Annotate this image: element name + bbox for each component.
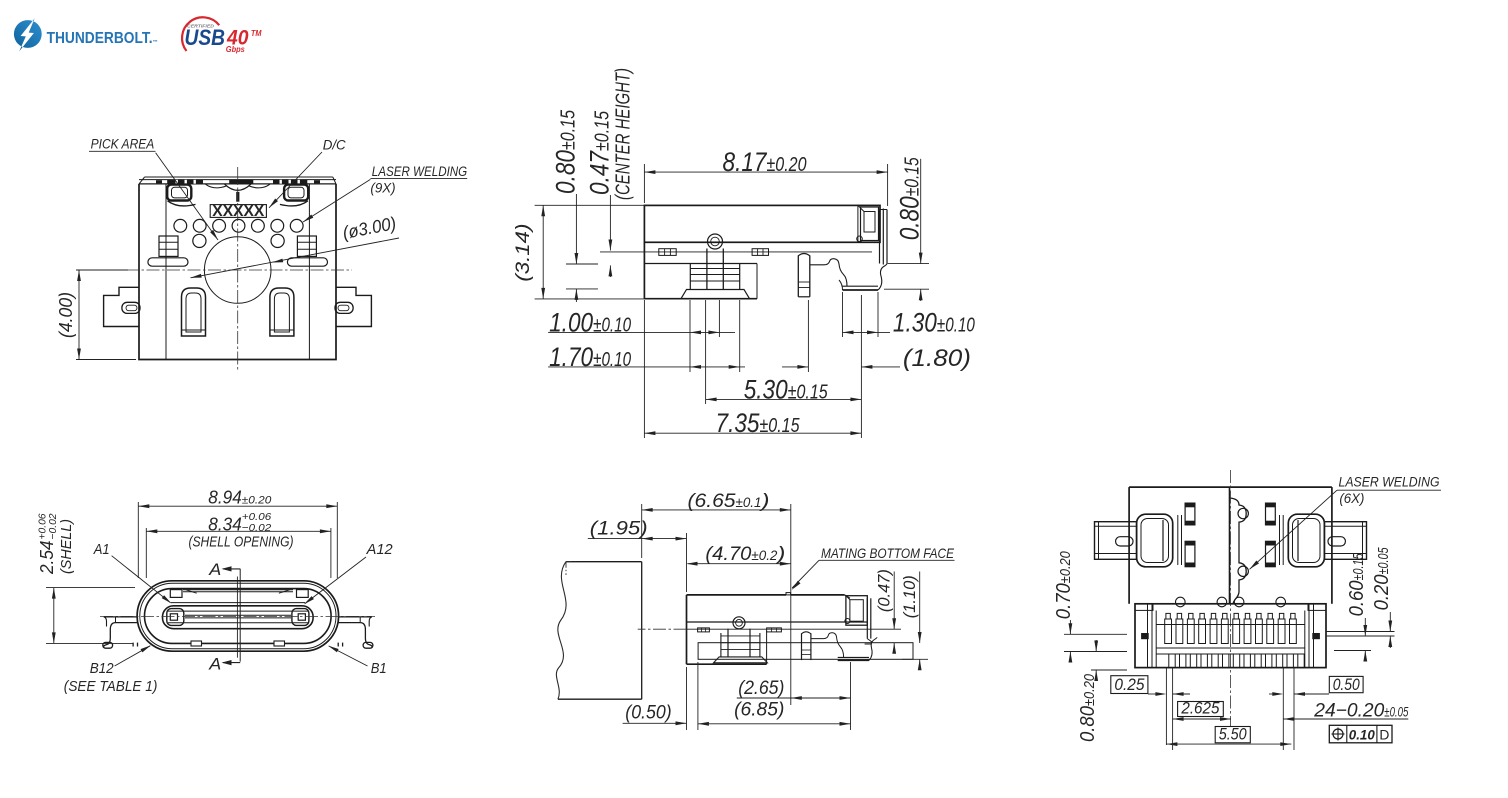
dim 5.50 boxed xyxy=(1215,727,1250,743)
tongue end caps xyxy=(167,609,184,626)
dim 0.70 xyxy=(1064,633,1127,635)
svg-text:2.625: 2.625 xyxy=(1181,699,1220,718)
top view shell body outline xyxy=(139,184,336,360)
svg-text:8.34: 8.34 xyxy=(208,513,242,534)
top view inner side lines xyxy=(165,184,167,360)
svg-text:0.20±0.05: 0.20±0.05 xyxy=(1371,547,1393,610)
svg-text:(4.00): (4.00) xyxy=(56,292,76,338)
dim (6.85) xyxy=(697,662,699,730)
top view centerlines xyxy=(237,167,239,372)
front view centerline xyxy=(100,615,375,617)
mounted center dome xyxy=(733,617,745,629)
svg-text:(1.95): (1.95) xyxy=(590,519,648,540)
front tongue xyxy=(163,606,314,629)
svg-text:0.60±0.15: 0.60±0.15 xyxy=(1346,553,1368,616)
upper pin row xyxy=(1166,613,1170,619)
top edge weld bars xyxy=(167,180,203,184)
svg-text:24−0.20±0.05: 24−0.20±0.05 xyxy=(1313,701,1408,722)
dim 1.70 xyxy=(739,300,741,372)
mounted rear bracket xyxy=(811,633,844,658)
position tolerance frame xyxy=(1329,725,1392,743)
side view rear latch block xyxy=(857,205,859,242)
dim 0.80 bottom xyxy=(1091,669,1127,671)
svg-text:LASER WELDING: LASER WELDING xyxy=(1339,475,1440,490)
dim 24-0.20 xyxy=(1283,718,1408,720)
svg-text:XXXXX: XXXXX xyxy=(212,203,265,220)
svg-text:(0.47): (0.47) xyxy=(874,569,893,612)
dim 0.50 boxed xyxy=(1329,676,1363,692)
latch hooks xyxy=(168,201,196,206)
mounted center foot xyxy=(727,629,729,657)
pcb tab right xyxy=(336,287,371,326)
laser weld circles row (9X) xyxy=(174,219,187,232)
latch right xyxy=(284,185,308,201)
wing latch left xyxy=(1137,514,1173,567)
svg-text:(6.65±0.1): (6.65±0.1) xyxy=(688,491,770,512)
svg-text:0.70±0.20: 0.70±0.20 xyxy=(1053,551,1075,620)
svg-text:(1.10): (1.10) xyxy=(900,575,919,618)
svg-text:5.50: 5.50 xyxy=(1219,725,1247,744)
dim (1.80) xyxy=(807,300,809,372)
dim 5.30 xyxy=(705,300,707,404)
svg-text:(2.65): (2.65) xyxy=(738,678,784,699)
dim (6.65) xyxy=(641,504,643,558)
svg-text:(SEE TABLE 1): (SEE TABLE 1) xyxy=(64,679,158,695)
date code box XXXXX xyxy=(210,205,266,218)
tongue contact band xyxy=(185,614,291,616)
dim (0.50) xyxy=(686,667,688,730)
svg-text:(3.14): (3.14) xyxy=(513,224,534,282)
front shell opening lines xyxy=(183,589,293,591)
lower pin row xyxy=(1169,654,1175,668)
svg-text:0.80±0.20: 0.80±0.20 xyxy=(1077,673,1099,742)
latch left xyxy=(167,185,191,201)
panel outline xyxy=(566,561,642,563)
svg-text:(0.50): (0.50) xyxy=(625,702,671,723)
dim 1.30 xyxy=(842,292,844,337)
dim 7.35 xyxy=(643,300,645,438)
panel corner marks xyxy=(566,561,578,563)
svg-text:−0.02: −0.02 xyxy=(242,522,272,534)
svg-text:(6X): (6X) xyxy=(1339,491,1364,506)
bottom view slots xyxy=(1185,503,1195,525)
svg-text:B12: B12 xyxy=(90,661,114,677)
svg-text:A1: A1 xyxy=(93,542,110,558)
retention leg right xyxy=(270,288,294,336)
center foot post xyxy=(706,249,708,290)
svg-text:A: A xyxy=(208,560,221,579)
side view main body xyxy=(644,205,880,242)
center tongue dome xyxy=(206,184,227,188)
svg-text:−0.02: −0.02 xyxy=(47,513,59,539)
svg-text:0.25: 0.25 xyxy=(1114,675,1144,694)
side view bands xyxy=(644,241,880,243)
svg-text:(1.80): (1.80) xyxy=(903,345,971,372)
svg-text:0.10: 0.10 xyxy=(1349,727,1375,742)
dim 8.94 xyxy=(137,502,139,578)
mounted front block xyxy=(846,596,867,626)
side view contact windows xyxy=(659,249,676,256)
svg-text:MATING BOTTOM FACE: MATING BOTTOM FACE xyxy=(821,545,955,561)
section line A-A xyxy=(239,569,241,662)
svg-text:PICK AREA: PICK AREA xyxy=(91,136,155,151)
rear foot bracket xyxy=(810,259,847,286)
front view outer shell xyxy=(137,581,339,651)
center contact dome xyxy=(708,234,723,249)
side pills xyxy=(148,258,188,266)
dim (4.70) xyxy=(688,563,791,565)
svg-text:THUNDERBOLT.: THUNDERBOLT. xyxy=(47,30,153,47)
dim 0.60 xyxy=(1326,631,1395,633)
svg-text:2.54: 2.54 xyxy=(36,541,57,575)
dim 0.80 left xyxy=(566,263,598,265)
dim 0.25 boxed xyxy=(1111,676,1148,694)
side view lower body xyxy=(643,242,645,298)
side detail stacks xyxy=(159,236,178,256)
svg-text:USB: USB xyxy=(185,25,226,50)
svg-text:A12: A12 xyxy=(366,542,393,558)
front bottom notches xyxy=(191,641,202,646)
dim (3.14) xyxy=(535,204,648,206)
center foot flange xyxy=(681,290,750,299)
svg-text:(6.85): (6.85) xyxy=(734,700,784,721)
svg-text:(SHELL): (SHELL) xyxy=(59,519,75,574)
dim (1.95) xyxy=(686,533,688,592)
svg-text:D/C: D/C xyxy=(323,138,346,153)
svg-text:LASER WELDING: LASER WELDING xyxy=(372,164,467,179)
pin block xyxy=(1135,604,1326,668)
retention leg left xyxy=(182,288,206,336)
svg-text:D: D xyxy=(1379,727,1389,742)
dim 0.20 xyxy=(1389,612,1391,632)
dim (1.10) mounted xyxy=(919,572,921,644)
USB40 certified logo xyxy=(182,17,219,51)
front leg right xyxy=(338,616,372,618)
side view rear plate xyxy=(879,210,881,264)
wing arm left xyxy=(1095,522,1137,560)
dim 0.47 center height xyxy=(600,251,644,253)
mounted rear leg xyxy=(801,633,803,660)
front leg left xyxy=(104,616,138,618)
wing latch right xyxy=(1288,514,1324,567)
svg-text:(4.70±0.2): (4.70±0.2) xyxy=(705,544,785,565)
bottom view center split xyxy=(1229,487,1231,604)
svg-text:TM: TM xyxy=(251,28,262,38)
svg-text:Gbps: Gbps xyxy=(226,45,246,54)
dim (4.00) xyxy=(76,269,128,271)
dim 8.17 xyxy=(643,164,645,203)
dim 8.34 shell opening xyxy=(145,528,147,578)
svg-text:0.50: 0.50 xyxy=(1333,675,1360,694)
svg-text:™: ™ xyxy=(153,39,158,45)
dim (0.47) mounted xyxy=(893,572,895,630)
dim 1.00 xyxy=(689,300,691,372)
rear leg xyxy=(797,255,799,296)
svg-text:(SHELL OPENING): (SHELL OPENING) xyxy=(189,534,294,550)
pick area circle dia 3.00 xyxy=(204,237,271,304)
pcb tab left xyxy=(104,287,139,326)
front shell top notches xyxy=(170,590,182,598)
laser weld circles row (4 of 6X) xyxy=(1176,597,1186,607)
dim (2.65) xyxy=(850,662,852,730)
svg-text:(9X): (9X) xyxy=(370,180,395,195)
top view leading edge strip xyxy=(145,176,333,178)
dim 2.625 boxed xyxy=(1178,702,1224,717)
wing arm right xyxy=(1324,522,1366,560)
svg-text:B1: B1 xyxy=(371,661,387,677)
panel broken edge xyxy=(556,562,566,700)
mounted contact windows xyxy=(698,628,710,632)
laser weld circles center (2 of 6X) xyxy=(1238,508,1248,518)
dim 2.54 shell xyxy=(46,587,135,589)
svg-text:(CENTER HEIGHT): (CENTER HEIGHT) xyxy=(613,68,635,200)
bottom view body xyxy=(1129,486,1332,488)
dim 0.80 right xyxy=(888,263,929,265)
svg-text:A: A xyxy=(208,654,221,673)
mounted body upper xyxy=(687,594,787,596)
pcb board xyxy=(698,643,913,660)
